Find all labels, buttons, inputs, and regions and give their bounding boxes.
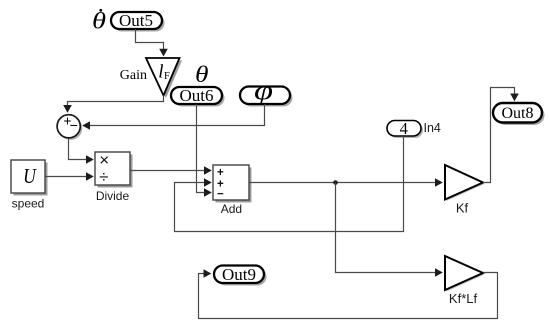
wire In4 to Add input2 [175,136,404,232]
wire Out5 to Gain [136,29,168,57]
svg-text:Gain: Gain [120,68,147,83]
wire phi to Sum [82,104,264,130]
svg-text:Add: Add [221,202,242,216]
svg-text:Divide: Divide [96,189,130,203]
sum block [57,113,82,140]
junction node [333,180,338,185]
wire Add to Kf [249,178,443,187]
svg-text:Kf*Lf: Kf*Lf [449,291,478,306]
svg-text:Out9: Out9 [222,265,256,284]
wire Kf to Out8 [483,88,519,183]
svg-text:÷: ÷ [99,168,108,187]
svg-text:Kf: Kf [456,201,469,216]
add block [213,165,252,203]
svg-text:φ: φ [254,76,273,105]
output port Out8 [493,103,545,125]
source block U [11,160,48,196]
svg-text:−: − [217,189,224,201]
wire Gain to Sum [63,96,163,113]
output port Out9 [214,265,267,286]
wire Sum to Divide x-input [69,138,94,164]
wire Out6 to Add input3 [197,104,212,197]
svg-text:Out5: Out5 [119,11,153,30]
gain block KfLf [445,256,485,292]
label theta-dot [92,8,106,34]
svg-text:Out8: Out8 [502,105,534,122]
wire KfLf to Out9 [199,269,498,318]
svg-text:θ: θ [195,61,209,88]
gain block Kf [445,165,485,201]
wire junction to KfLf [336,183,443,277]
gain block Gain (lF triangle) [146,58,182,98]
wire U to Divide divide-input [45,172,94,181]
svg-text:l: l [158,62,163,83]
output port Out5 [111,11,165,32]
divide block [95,151,133,188]
output port Out6 [171,86,225,107]
svg-text:F: F [164,71,170,82]
svg-text:θ: θ [92,8,106,34]
svg-text:speed: speed [12,197,45,211]
svg-text:4: 4 [400,119,408,138]
wire Divide to Add input1 [130,166,212,175]
svg-text:In4: In4 [424,121,441,135]
svg-text:−: − [70,117,78,133]
svg-text:U: U [23,166,38,189]
svg-text:+: + [217,167,224,179]
input port phi [240,76,293,107]
svg-text:Out6: Out6 [180,86,214,105]
input port In4 (value 4) [387,119,423,138]
